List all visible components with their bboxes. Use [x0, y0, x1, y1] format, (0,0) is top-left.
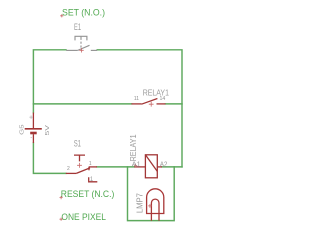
wire S1 out to coil A1: [97, 166, 134, 168]
svg-text:G5: G5: [19, 124, 25, 135]
contact pin 11 stub: [132, 103, 142, 105]
battery top pin: [32, 113, 34, 129]
wire top left segment: [33, 50, 66, 113]
svg-text:LMP7: LMP7: [136, 193, 145, 213]
svg-text:11: 11: [134, 96, 139, 102]
svg-text:1: 1: [89, 161, 92, 167]
svg-text:5V: 5V: [45, 125, 51, 136]
lamp inner arch and legs: [151, 199, 159, 221]
svg-text:RELAY1: RELAY1: [128, 134, 138, 161]
lamp LMP7: [147, 189, 164, 221]
battery minus sign: [31, 137, 32, 139]
wire lamp loop left/bottom/right: [128, 167, 175, 221]
battery long plate: [25, 128, 42, 130]
coil pin A2 stub: [157, 166, 162, 168]
battery bottom pin: [32, 134, 34, 143]
svg-text:A1: A1: [132, 159, 141, 168]
wire coil A2 to right rail: [162, 166, 182, 168]
label SET origin cross: [60, 14, 63, 17]
svg-text:RESET (N.C.): RESET (N.C.): [61, 189, 115, 199]
svg-text:S1: S1: [74, 138, 81, 148]
coil box: [145, 155, 157, 178]
label ONE PIXEL origin cross: [60, 218, 63, 221]
S1 pin 1 stub: [89, 166, 97, 168]
E1 right pin stub: [91, 49, 97, 51]
svg-text:14: 14: [160, 96, 166, 102]
relay contact 11/14: [132, 99, 166, 105]
E1 dashed actuator stem: [80, 42, 82, 48]
wire top right segment: [97, 50, 182, 167]
S1 lower L bracket: [89, 177, 98, 182]
E1 left pin stub: [66, 49, 78, 51]
pushbutton E1 (gray symbol): [66, 36, 97, 50]
S1 lever: [76, 168, 90, 174]
battery G5: [25, 113, 42, 143]
label RESET origin cross: [60, 196, 63, 199]
wire middle row right: [166, 103, 183, 105]
battery short thick plate: [30, 132, 37, 135]
E1 origin cross: [79, 48, 83, 52]
pushbutton S1 (red symbol): [66, 155, 98, 182]
svg-text:A2: A2: [160, 159, 168, 168]
E1 lever: [78, 45, 90, 50]
wire battery bottom to S1: [33, 143, 65, 173]
E1 cap bracket: [75, 36, 87, 40]
wire middle row left: [33, 103, 131, 105]
S1 fixed contact bar: [88, 167, 90, 171]
contact lever: [142, 99, 158, 105]
relay coil RELAY1: [134, 155, 162, 178]
battery plus sign: [29, 116, 32, 119]
lamp outer dome: [147, 189, 164, 214]
S1 origin cross: [77, 163, 82, 168]
contact pin 14 stub: [157, 103, 166, 105]
svg-text:SET (N.O.): SET (N.O.): [62, 7, 105, 17]
svg-text:2: 2: [67, 166, 70, 172]
svg-text:E1: E1: [74, 22, 81, 32]
lamp origin cross: [148, 204, 152, 208]
S1 actuator T bar: [74, 155, 85, 161]
S1 pin 2 stub: [66, 172, 77, 174]
svg-text:ONE PIXEL: ONE PIXEL: [61, 212, 106, 222]
coil origin cross: [134, 164, 137, 167]
coil diagonal: [145, 155, 157, 172]
coil pin A1 stub: [134, 166, 145, 168]
contact origin cross: [149, 102, 154, 107]
